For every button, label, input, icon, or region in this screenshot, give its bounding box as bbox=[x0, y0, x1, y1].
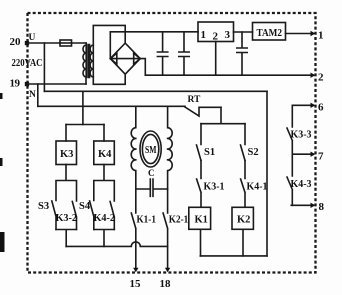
svg-text:C: C bbox=[148, 168, 155, 178]
svg-text:S1: S1 bbox=[204, 147, 215, 158]
switch S2 bbox=[241, 124, 246, 161]
wire terminal 8 bbox=[291, 204, 313, 206]
svg-text:N: N bbox=[29, 90, 36, 100]
svg-text:18: 18 bbox=[160, 278, 172, 290]
wire K4 top lead bbox=[103, 125, 105, 142]
svg-text:K1: K1 bbox=[195, 215, 208, 226]
wire +V rail bbox=[110, 31, 198, 33]
capacitor C3 bbox=[237, 32, 247, 75]
thermal contact RT bbox=[185, 107, 221, 116]
switch S4 bbox=[90, 201, 94, 230]
transformer T secondary winding bbox=[90, 45, 93, 77]
wire terminal 6 bbox=[292, 104, 313, 106]
svg-text:S4: S4 bbox=[79, 201, 91, 212]
capacitor C2 bbox=[179, 32, 189, 75]
switch S3 bbox=[52, 201, 56, 230]
wire K4 branch rejoin bbox=[94, 230, 115, 247]
relay coil K1 box bbox=[189, 207, 211, 229]
svg-text:K2-1: K2-1 bbox=[169, 215, 189, 226]
terminal 18 arrow bbox=[165, 268, 170, 273]
wire K4 bottom split bbox=[94, 165, 115, 202]
wire N branch down bbox=[37, 84, 39, 106]
capacitor C motor bbox=[136, 179, 168, 196]
fuse FU bbox=[60, 40, 72, 46]
svg-text:K4-2: K4-2 bbox=[94, 213, 116, 224]
wire TAM2 output to terminal 1 bbox=[286, 33, 314, 35]
wire bridge plus output to rail bbox=[109, 32, 111, 57]
wire regulator pin2 to common rail bbox=[215, 42, 217, 76]
contact K4-3 bbox=[287, 154, 292, 205]
transformer T core bbox=[88, 45, 90, 78]
wire regulator output bbox=[234, 31, 253, 33]
switch S1 bbox=[197, 124, 202, 161]
relay coil K4 box bbox=[94, 141, 115, 165]
svg-text:S3: S3 bbox=[38, 201, 49, 212]
relay coil K2 box bbox=[232, 207, 253, 229]
svg-text:1: 1 bbox=[201, 29, 207, 41]
bus A right vertical drop bbox=[266, 91, 268, 256]
contact K3-1 bbox=[197, 161, 201, 208]
svg-text:8: 8 bbox=[319, 201, 325, 213]
terminal 1 arrow bbox=[311, 31, 316, 36]
svg-text:K4-1: K4-1 bbox=[247, 182, 268, 193]
svg-text:1: 1 bbox=[318, 30, 324, 42]
svg-text:S2: S2 bbox=[248, 147, 259, 158]
svg-text:3: 3 bbox=[225, 29, 231, 41]
svg-text:RT: RT bbox=[188, 95, 202, 105]
wire K3 top lead bbox=[65, 125, 67, 142]
contact K4-1 bbox=[241, 161, 245, 208]
svg-text:19: 19 bbox=[10, 78, 21, 90]
terminal 2 arrow bbox=[311, 73, 316, 78]
wire U top bbox=[28, 42, 87, 44]
wire terminal 7 bbox=[292, 153, 313, 155]
transformer T primary winding bbox=[83, 43, 86, 77]
svg-text:SM: SM bbox=[145, 145, 157, 156]
contact K2-1 bbox=[163, 213, 168, 270]
svg-text:220VAC: 220VAC bbox=[12, 58, 43, 69]
wire relay branch riser bbox=[82, 91, 84, 124]
wire bottom bus with hop over terminal 15 line bbox=[66, 242, 167, 247]
wire transformer primary bottom bbox=[85, 77, 87, 84]
svg-text:6: 6 bbox=[318, 102, 324, 114]
terminal 19 bbox=[25, 82, 29, 86]
contact K3-2 bbox=[72, 202, 76, 230]
contact K4-2 bbox=[110, 202, 114, 230]
terminal 7 arrow bbox=[311, 152, 316, 157]
terminal 15 arrow bbox=[133, 268, 138, 273]
contact K1-1 bbox=[131, 213, 136, 270]
svg-text:K4-3: K4-3 bbox=[291, 179, 312, 190]
bridge rectifier internal diodes bbox=[110, 53, 140, 65]
relay coil K3 box bbox=[56, 141, 77, 165]
svg-text:7: 7 bbox=[318, 151, 324, 163]
wire secondary bottom to bridge bottom bbox=[93, 74, 125, 84]
svg-text:K1-1: K1-1 bbox=[137, 215, 157, 226]
svg-text:K3: K3 bbox=[60, 149, 73, 160]
wire K3 branch rejoin bbox=[56, 230, 77, 247]
scan artifact tick 2 bbox=[0, 158, 3, 166]
motor right winding bbox=[168, 106, 173, 213]
scan artifact tick 1 bbox=[0, 93, 3, 99]
wire bridge right output down to common rail bbox=[140, 59, 145, 76]
wire common rail to terminal 2 bbox=[145, 74, 313, 76]
wire K2 bottom bbox=[242, 229, 244, 256]
terminal 20 bbox=[25, 41, 29, 45]
terminal 6 arrow bbox=[311, 103, 316, 108]
wire K1 bottom bbox=[200, 229, 202, 256]
motor SM symbol bbox=[140, 131, 161, 167]
voltage regulator U1 box bbox=[198, 22, 234, 42]
svg-text:TAM2: TAM2 bbox=[257, 28, 283, 39]
motor left winding bbox=[131, 106, 136, 213]
scan artifact blob bbox=[0, 232, 5, 252]
svg-text:K3-3: K3-3 bbox=[291, 130, 312, 141]
module TAM2 box bbox=[253, 23, 286, 41]
svg-text:K4: K4 bbox=[98, 149, 112, 160]
wire U branch down bbox=[43, 43, 45, 91]
bus B horizontal bbox=[38, 105, 185, 107]
wire S-branch top bar bbox=[201, 123, 245, 125]
bus A horizontal bbox=[44, 90, 267, 92]
svg-text:K3-2: K3-2 bbox=[56, 213, 78, 224]
contact K3-3 bbox=[287, 105, 292, 154]
svg-text:K3-1: K3-1 bbox=[204, 182, 225, 193]
wire K3 bottom split bbox=[56, 165, 77, 202]
svg-text:K2: K2 bbox=[237, 215, 250, 226]
terminal 8 arrow bbox=[311, 203, 316, 208]
capacitor C1 bbox=[157, 32, 167, 75]
svg-text:U: U bbox=[29, 33, 36, 43]
enclosure dashed border bbox=[28, 13, 316, 273]
bridge rectifier diamond bbox=[110, 43, 140, 74]
wire RT down to S-branch bar bbox=[220, 107, 222, 123]
wire secondary top to bridge bbox=[93, 25, 125, 45]
wire relay split bar bbox=[66, 124, 104, 126]
svg-text:20: 20 bbox=[10, 36, 22, 48]
wire N from terminal 19 bbox=[28, 83, 87, 85]
wire bottom bus K1 K2 bbox=[200, 255, 267, 257]
svg-text:2: 2 bbox=[318, 72, 324, 84]
svg-text:15: 15 bbox=[130, 278, 142, 290]
